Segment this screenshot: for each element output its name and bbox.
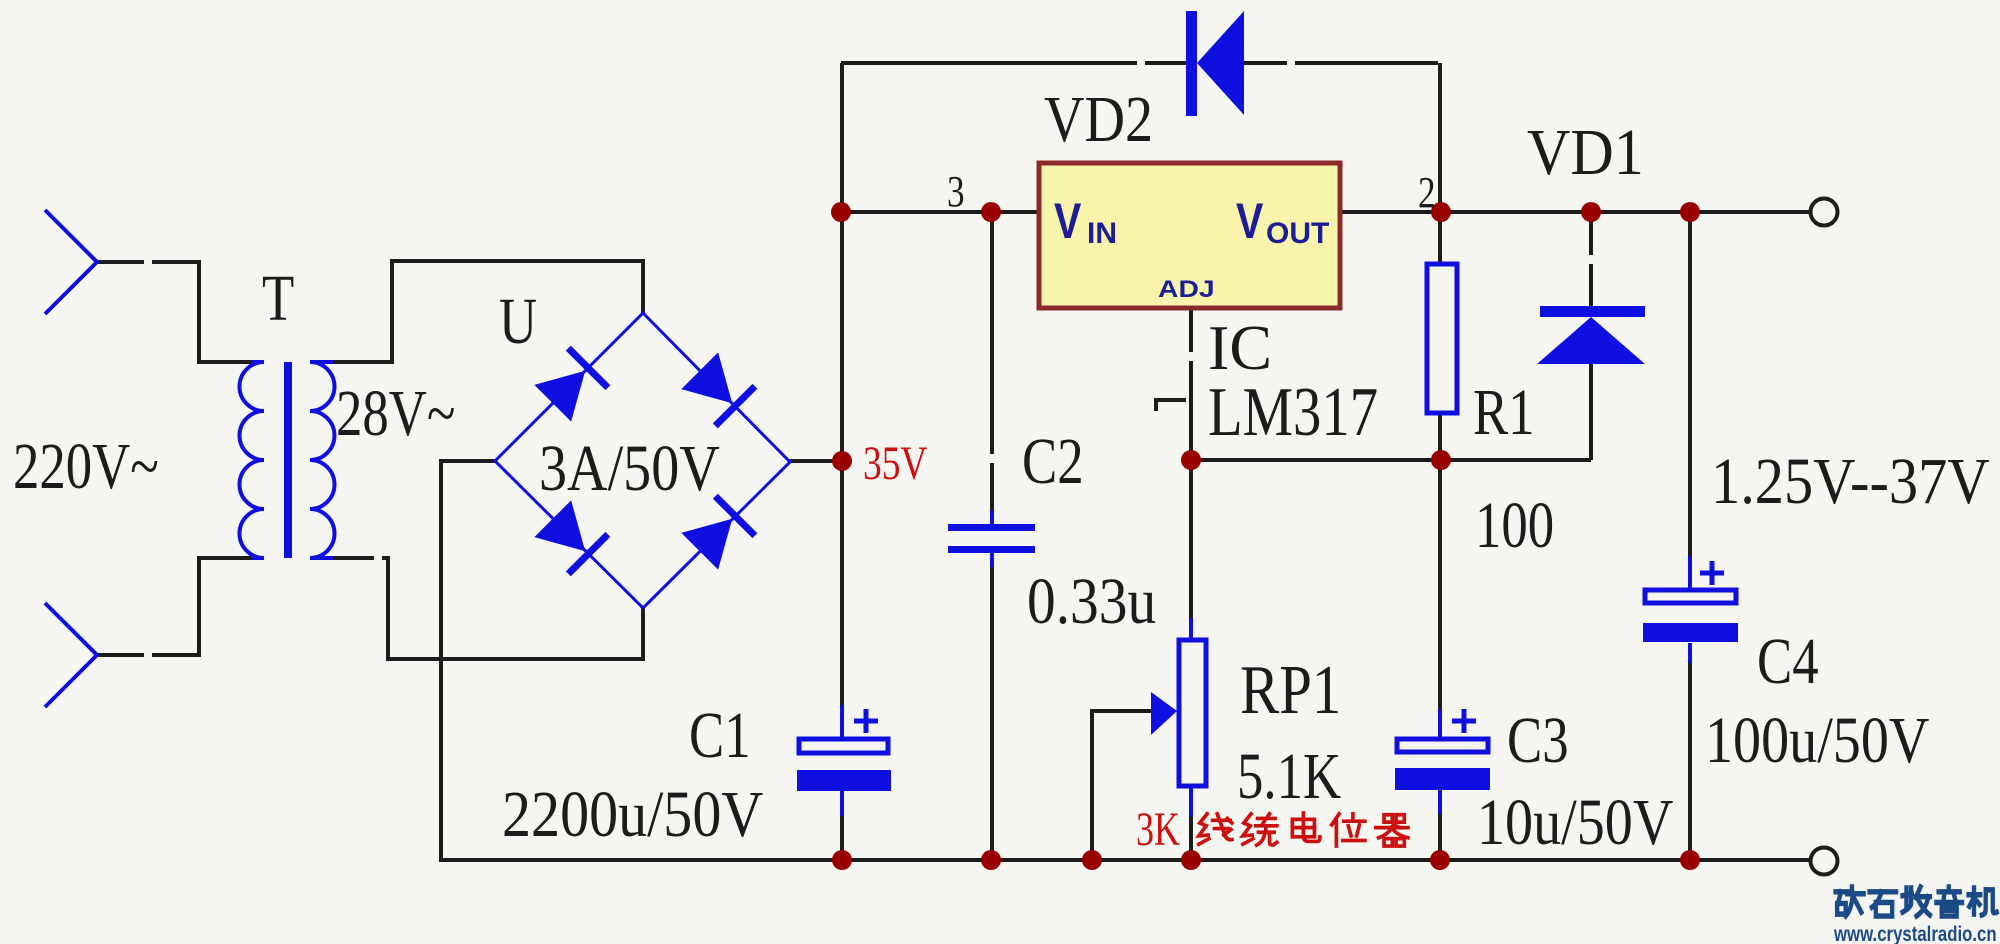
node C2 top [981,202,1001,222]
capacitor C3 leads [1438,709,1442,814]
wire ADJ vertical [1189,308,1193,860]
wire bridge DC- to bottom bus [441,461,1810,860]
wire R1 C3 vertical [1438,63,1442,860]
wire wiper of RP1 [1092,711,1152,860]
bridge rectifier U diamond [495,313,790,608]
svg-text:3K: 3K [1136,803,1180,856]
potentiometer RP1 leads [1189,618,1193,817]
pin 1 tick mark near ADJ [1156,400,1186,411]
svg-text:100u/50V: 100u/50V [1705,704,1929,777]
node 2 (Vout) [1431,202,1451,222]
svg-text:5.1K: 5.1K [1237,739,1341,812]
IC pin label VIN [1054,193,1117,250]
svg-text:VD2: VD2 [1044,83,1153,156]
node C1 bottom [832,850,852,870]
capacitor C4 negative plate [1643,623,1738,642]
node ADJ [1181,450,1201,470]
terminal + output [1811,199,1838,226]
terminal - output [1811,848,1838,875]
node 35V [832,451,852,471]
node 3 (Vin) [831,202,851,222]
node C3 bottom [1430,850,1450,870]
watermark logo 矿石收音机 [1836,887,1997,916]
diode VD2 triangle [1197,11,1244,115]
svg-text:www.crystalradio.cn: www.crystalradio.cn [1833,923,1997,944]
wire VD1 anode leg [1589,364,1593,460]
node wiper bottom [1082,850,1102,870]
capacitor C4 plus sign [1700,561,1724,585]
IC pin label VOUT [1236,193,1329,250]
wire 35V vertical riser [840,63,844,860]
svg-text:ADJ: ADJ [1158,275,1215,302]
svg-text:28V~: 28V~ [336,376,455,449]
svg-text:RP1: RP1 [1240,650,1341,728]
transformer T core [284,362,292,558]
svg-text:IN: IN [1087,217,1117,250]
svg-text:U: U [499,284,537,357]
capacitor C2 plate bottom [948,546,1035,553]
transformer T primary winding [239,362,264,558]
node RP1 bottom [1181,850,1201,870]
wire secondary top to bridge AC top [333,261,643,362]
potentiometer RP1 body [1179,640,1206,786]
svg-text:V: V [1054,193,1082,249]
svg-text:220V~: 220V~ [13,429,159,502]
wire Vout line to + output [1340,210,1810,214]
svg-text:C1: C1 [689,698,751,771]
wire C4 vertical [1688,212,1692,860]
label 线绕电位器 (wirewound potentiometer, red) [1199,813,1408,846]
node VD1 top [1581,202,1601,222]
svg-text:10u/50V: 10u/50V [1477,786,1673,859]
wire ADJ net horizontal [1191,458,1591,462]
capacitor C1 negative plate [797,770,891,791]
capacitor C3 plus sign [1452,709,1476,733]
node C2 bottom [981,850,1001,870]
svg-text:C4: C4 [1757,624,1819,697]
svg-text:2200u/50V: 2200u/50V [502,779,763,851]
wire Vin line [841,210,1039,214]
svg-text:R1: R1 [1473,375,1535,448]
svg-text:100: 100 [1475,488,1554,561]
svg-text:3: 3 [947,166,965,216]
svg-text:3A/50V: 3A/50V [539,432,720,505]
capacitor C4 leads [1688,556,1692,663]
diode VD1 cathode bar [1540,306,1645,317]
svg-text:2: 2 [1418,167,1436,217]
node C4 bottom [1680,850,1700,870]
svg-text:1.25V--37V: 1.25V--37V [1711,445,1989,518]
capacitor C2 leads [990,510,994,567]
svg-text:C3: C3 [1507,703,1569,776]
op-amp U1 regulator IC LM317 body [1039,163,1340,308]
wire secondary bottom to bridge AC bottom [333,558,643,659]
diode VD1 triangle [1537,317,1645,364]
wire C2 vertical [990,212,994,860]
capacitor C3 positive plate [1397,739,1488,752]
capacitor C3 negative plate [1395,768,1490,790]
wire top bus with VD2 [841,61,1438,65]
wire bridge DC+ to 35V node [789,459,842,463]
svg-text:OUT: OUT [1266,217,1329,250]
transformer T secondary winding [310,362,335,558]
input connector arrow upper [45,210,97,314]
wire primary top (220V input upper) [97,262,251,362]
resistor R1 body [1427,264,1457,413]
svg-text:0.33u: 0.33u [1027,565,1156,638]
input connector arrow lower [45,603,97,707]
diode VD2 cathode bar [1186,11,1197,116]
node R1 bottom [1431,450,1451,470]
bridge diode lower-left [533,499,608,574]
wire VD1 cathode leg [1589,212,1593,307]
bridge diode lower-right [680,496,755,571]
svg-text:VD1: VD1 [1527,115,1644,188]
bridge diode upper-left [533,348,608,423]
capacitor C1 positive plate [799,739,888,753]
svg-text:T: T [262,261,294,334]
svg-text:LM317: LM317 [1208,372,1378,450]
capacitor C1 plus sign [854,709,878,733]
svg-text:35V: 35V [863,438,927,490]
svg-text:C2: C2 [1022,424,1084,497]
bridge diode upper-right [680,351,755,426]
node C4 top [1680,202,1700,222]
potentiometer RP1 wiper arrow [1151,692,1177,735]
capacitor C4 positive plate [1645,590,1736,603]
capacitor C1 leads [840,705,844,816]
capacitor C2 plate top [948,524,1035,531]
svg-text:V: V [1236,193,1264,249]
wire primary bottom (220V input lower) [97,558,251,655]
